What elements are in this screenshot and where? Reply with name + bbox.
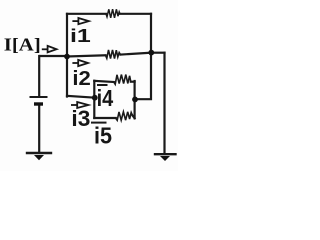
svg-text:I[A]: I[A] xyxy=(4,36,41,55)
svg-text:i3: i3 xyxy=(71,106,90,131)
svg-text:i4: i4 xyxy=(97,86,114,112)
svg-text:i5: i5 xyxy=(94,123,112,149)
svg-text:i2: i2 xyxy=(72,68,90,90)
svg-text:i1: i1 xyxy=(70,25,91,46)
